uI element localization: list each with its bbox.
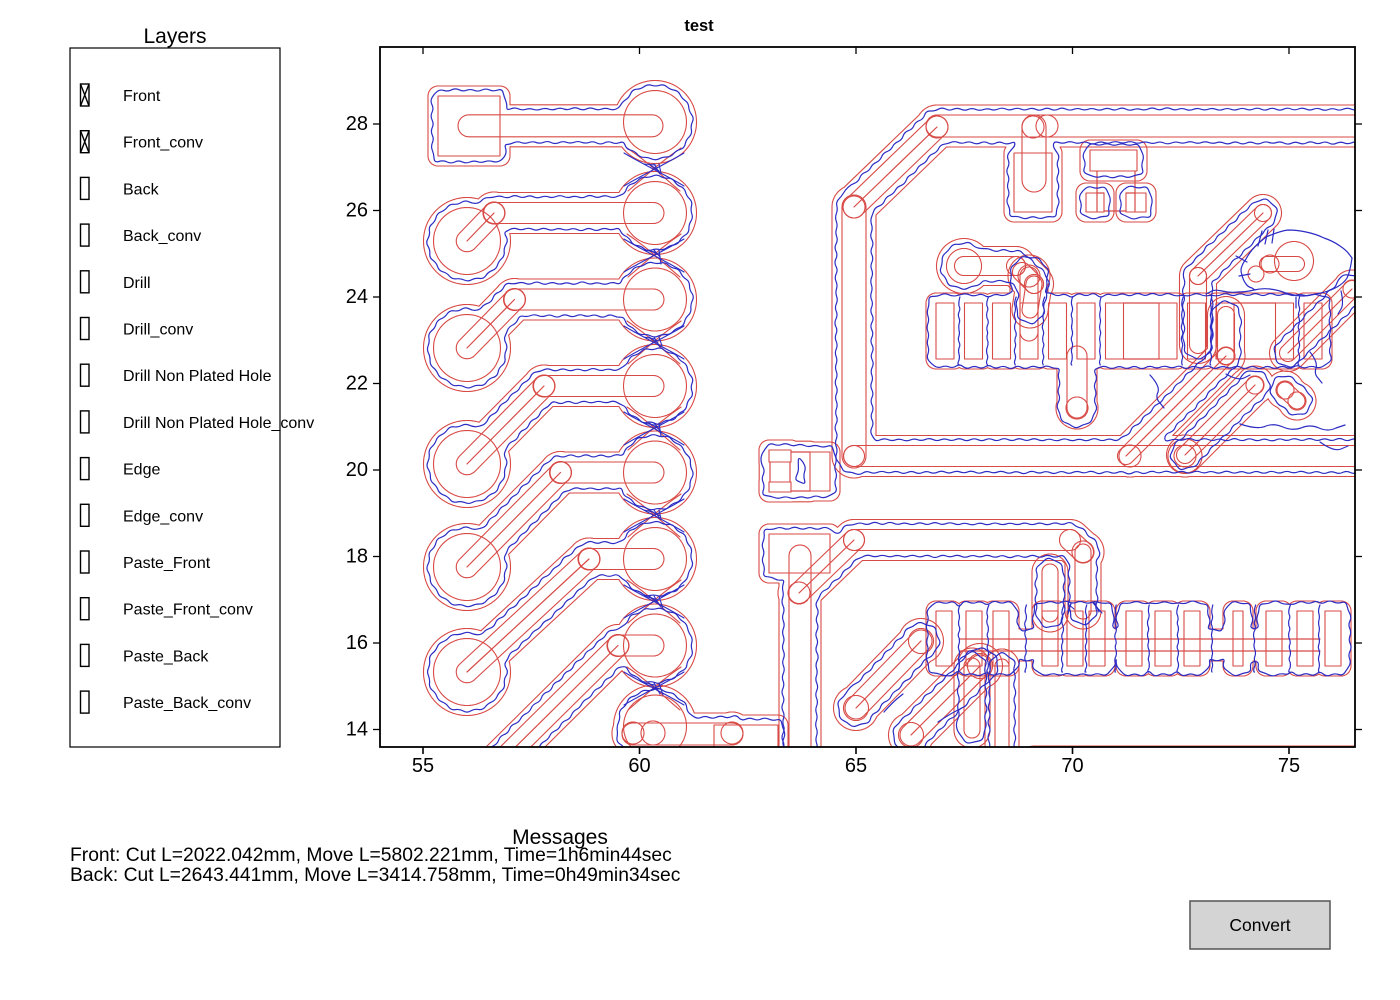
svg-text:Drill Non Plated Hole_conv: Drill Non Plated Hole_conv bbox=[123, 415, 314, 432]
svg-text:Paste_Back_conv: Paste_Back_conv bbox=[123, 695, 251, 712]
svg-text:Layers: Layers bbox=[143, 25, 206, 48]
svg-text:Convert: Convert bbox=[1229, 915, 1290, 935]
svg-text:Front: Front bbox=[123, 88, 161, 105]
svg-text:Drill_conv: Drill_conv bbox=[123, 322, 193, 339]
svg-text:Drill: Drill bbox=[123, 275, 151, 292]
svg-text:Edge_conv: Edge_conv bbox=[123, 508, 203, 525]
svg-text:Drill Non Plated Hole: Drill Non Plated Hole bbox=[123, 368, 272, 385]
svg-text:Back: Cut L=2643.441mm, Move L: Back: Cut L=2643.441mm, Move L=3414.758m… bbox=[70, 865, 681, 886]
svg-text:Paste_Front_conv: Paste_Front_conv bbox=[123, 602, 253, 619]
svg-text:Paste_Back: Paste_Back bbox=[123, 648, 209, 665]
svg-text:Paste_Front: Paste_Front bbox=[123, 555, 211, 572]
svg-text:Back: Back bbox=[123, 181, 160, 198]
svg-text:Back_conv: Back_conv bbox=[123, 228, 201, 245]
svg-text:Front: Cut L=2022.042mm, Move: Front: Cut L=2022.042mm, Move L=5802.221… bbox=[70, 845, 672, 866]
svg-text:Front_conv: Front_conv bbox=[123, 135, 203, 152]
svg-text:Edge: Edge bbox=[123, 462, 160, 479]
